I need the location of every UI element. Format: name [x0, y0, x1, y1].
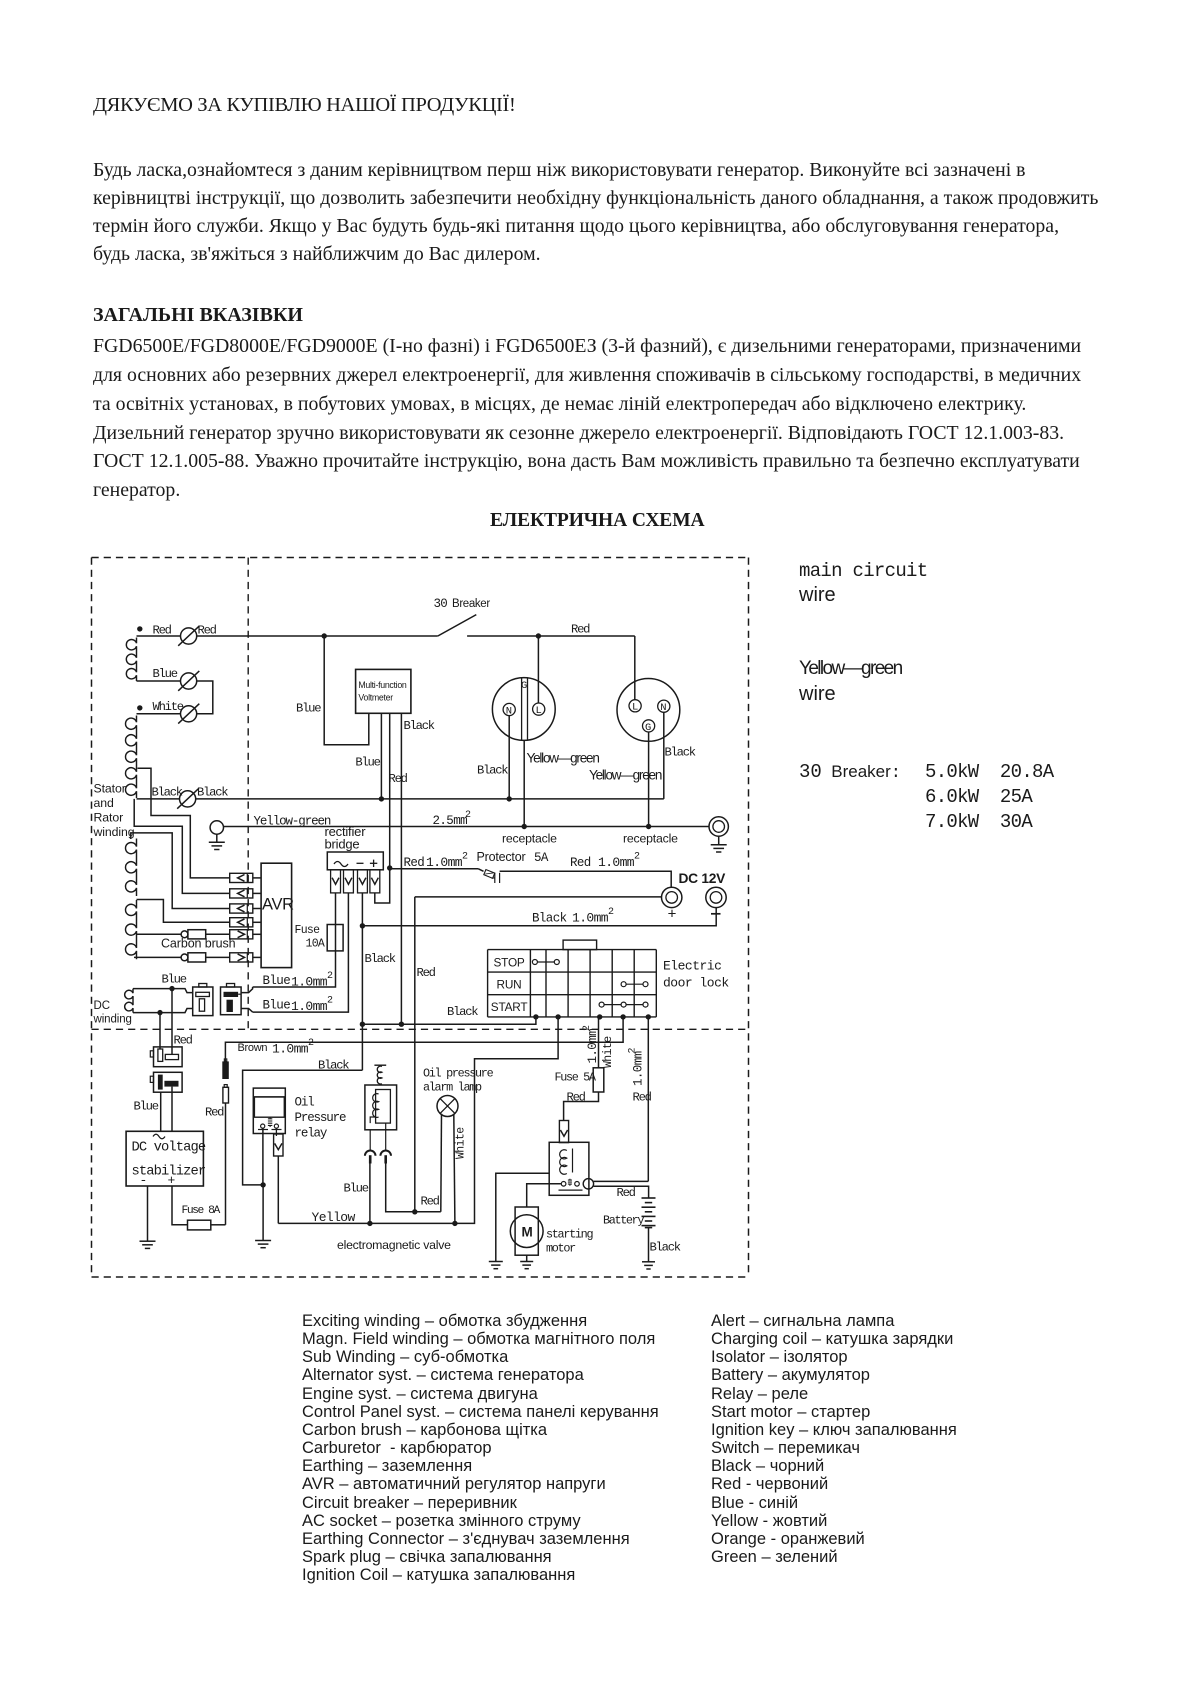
connector: blue wire splice (circle with slash)	[178, 671, 199, 691]
svg-text:2: 2	[608, 907, 614, 918]
frame: inner dashed divider vertical (stator section)	[247, 558, 249, 1030]
node: junction dot lamp line / white riser	[412, 1209, 417, 1214]
connector: AVR input 2	[230, 889, 261, 898]
label minus	[711, 913, 721, 915]
label Carbon brush	[161, 937, 236, 951]
wire: valve lead 2 inside box	[385, 1123, 387, 1150]
wire: fuse 5A to relay coil	[564, 1092, 599, 1121]
wire: motor to ground	[526, 1255, 528, 1261]
label Black (relay feed)	[318, 1059, 349, 1073]
label Battery	[603, 1214, 644, 1228]
svg-text:Red: Red	[205, 1106, 224, 1120]
label plus	[668, 907, 677, 924]
label Fuse 5A	[555, 1071, 597, 1085]
DC voltage stabilizer box	[126, 1131, 206, 1188]
page title	[93, 91, 515, 119]
svg-text:1.0mm: 1.0mm	[426, 855, 463, 870]
node: junction lamp/yellow line	[452, 1221, 457, 1226]
switch contacts STOP row	[532, 960, 559, 965]
wire: black wire from control drop to relay	[243, 1070, 363, 1185]
svg-text:receptacle: receptacle	[502, 832, 557, 846]
wire: stabilizer minus to ground	[147, 1186, 149, 1241]
label Red (right of connector)	[198, 624, 217, 638]
svg-text:White: White	[602, 1036, 615, 1068]
svg-text:2: 2	[628, 1048, 639, 1054]
svg-text:Blue: Blue	[134, 1100, 159, 1114]
label Red (lamp line)	[421, 1195, 440, 1209]
wire: valve lead 1 inside box	[369, 1130, 371, 1151]
svg-text:1.0mm: 1.0mm	[598, 855, 635, 870]
svg-text:Yellow—green: Yellow—green	[589, 768, 662, 783]
svg-text:Blue: Blue	[263, 974, 291, 988]
node: switch terminal dot 4	[620, 1014, 625, 1019]
svg-text:Red: Red	[617, 1186, 636, 1200]
wire: lamp right lead down to yellow	[454, 1114, 455, 1224]
wire: dc winding top lead	[133, 989, 193, 993]
protector 5A (thermal protector)	[478, 869, 500, 883]
spark unit 2 (filled bars)	[150, 1072, 182, 1092]
label 2.5mm2	[433, 810, 472, 828]
svg-text:DC 12V: DC 12V	[679, 871, 727, 886]
svg-text:Protector: Protector	[477, 850, 526, 864]
wire: L1 bottom lead to blue connector	[137, 680, 181, 682]
label Blue (voltmeter wire 2)	[355, 756, 380, 770]
paragraph 2	[93, 332, 1081, 505]
wire: switch terminal 5 to battery	[647, 1017, 649, 1182]
label Yellow-green (receptacle1)	[527, 751, 600, 766]
svg-text:Black: Black	[477, 764, 508, 778]
wire: L4 top lead to AVR row4 (stair)	[137, 900, 230, 923]
wire: yellow-green earth line	[224, 826, 710, 828]
svg-text:Voltmeter: Voltmeter	[358, 692, 393, 702]
legend right column	[711, 1312, 957, 1566]
node: switch terminal dot 2	[555, 1014, 560, 1019]
node: junction receptacle1 G / yellow-green	[522, 824, 527, 829]
label Yellow-green (receptacle2)	[589, 768, 662, 783]
label White (lamp lead, rotated)	[455, 1127, 468, 1159]
label Oil pressure alarm lamp	[423, 1067, 494, 1095]
label Black (switch feed)	[447, 1005, 478, 1019]
svg-text:1.0mm: 1.0mm	[291, 975, 328, 990]
wire: L4 tap to carbon brush 1	[137, 933, 182, 935]
wire: fuse 8A to red riser	[211, 1224, 226, 1226]
spark unit 1 (hollow bars)	[150, 1047, 182, 1067]
svg-text:receptacle: receptacle	[623, 832, 678, 846]
svg-text:Black: Black	[365, 952, 396, 966]
connector: black wire splice (circle with slash)	[177, 789, 198, 809]
terminal: DC 12V minus	[706, 887, 726, 907]
svg-text:electromagnetic valve: electromagnetic valve	[337, 1238, 451, 1252]
wire: white riser from dc12v line	[414, 897, 416, 1212]
breaker 30: open switch arm	[438, 615, 477, 636]
connector: AVR input 1	[230, 873, 261, 882]
relay K1 (starter relay)	[549, 1142, 589, 1195]
wire: bridge -3 down (black control drop)	[361, 893, 363, 1070]
wire: black 1.0mm2 line to minus terminal	[362, 908, 716, 926]
node: junction dot dc top lead	[169, 986, 174, 991]
wire: black neutral line to receptacles	[196, 798, 664, 800]
svg-text:Blue: Blue	[355, 756, 380, 770]
label Red (top of isolators)	[174, 1034, 193, 1048]
svg-text:alarm lamp: alarm lamp	[423, 1081, 482, 1095]
label Black (voltmeter wire 4)	[404, 719, 435, 733]
terminal: relay output circle	[583, 1179, 593, 1189]
svg-text:Stator: Stator	[94, 782, 126, 796]
legend left column	[302, 1312, 659, 1584]
switch contacts RUN row	[621, 982, 648, 987]
valve plug hook 1	[365, 1151, 376, 1164]
wire: isolator to blue 1.0mm2 line 1	[241, 987, 253, 993]
node: junction dot black drop / dc12v black line	[360, 923, 365, 928]
label rectifier bridge	[325, 824, 367, 852]
schema heading	[490, 510, 705, 532]
ignition switch block (electric door lock)	[488, 940, 657, 1017]
label Black (receptacle1 N wire)	[477, 764, 508, 778]
check valve (relay coil input)	[559, 1121, 568, 1143]
svg-text:Fuse 5A: Fuse 5A	[555, 1071, 597, 1085]
carbon brush 1 (circle + holder)	[181, 930, 206, 939]
label Black (control drop)	[365, 952, 396, 966]
rectifier bridge block	[327, 852, 383, 870]
paragraph 1	[93, 156, 1098, 268]
receptacle 2 (AC socket)	[617, 679, 680, 742]
svg-text:Multi-function: Multi-function	[358, 680, 407, 690]
wire: L2 bottom to black connector	[137, 798, 180, 800]
frame: inner dashed divider horizontal (engine section)	[92, 1028, 749, 1030]
label Oil Pressure relay	[295, 1096, 346, 1141]
wire: yellow line	[278, 1017, 558, 1224]
label Black (right of connector)	[197, 786, 228, 800]
ground: battery earth	[642, 1262, 655, 1269]
wire: black line corner up to receptacle 2 N	[663, 712, 665, 799]
wire: dc bottom drop to spark block	[159, 1013, 161, 1049]
node: junction valve/yellow line	[367, 1221, 372, 1226]
wire: relay coil to ground (left)	[496, 1173, 549, 1261]
wire: valve hook1 to yellow line	[369, 1164, 371, 1224]
label 1.0mm2 (battery riser, rotated)	[628, 1048, 646, 1087]
svg-text:Red: Red	[570, 856, 591, 870]
label Blue (valve lead)	[344, 1182, 369, 1196]
svg-text:Fuse: Fuse	[295, 924, 321, 937]
fuse 10A (cartridge)	[327, 925, 343, 951]
connector: red wire splice (circle with slash)	[178, 626, 199, 646]
winding L2 (main winding)	[126, 716, 137, 799]
ground: earthing symbol (stator side)	[209, 821, 225, 850]
wire: red main line after breaker	[467, 635, 635, 637]
svg-text:White: White	[153, 700, 184, 714]
wire: red wire down to fuse 8A line	[225, 1103, 227, 1225]
svg-text:Blue: Blue	[162, 973, 187, 987]
connector: bridge output 2 (~)	[344, 870, 354, 893]
node: junction dot control line / voltmeter wire 4	[399, 1021, 404, 1026]
node: junction dot red line / receptacle L drop	[322, 633, 327, 638]
connector: AVR input 4	[230, 918, 261, 927]
electromagnetic valve body	[365, 1085, 397, 1130]
connector: bridge output 3 (-)	[358, 870, 368, 893]
svg-text:2.5mm: 2.5mm	[433, 814, 468, 828]
ground: motor earth	[520, 1262, 533, 1269]
svg-text:starting: starting	[546, 1228, 593, 1242]
label Protector 5A	[477, 850, 549, 865]
svg-text:White: White	[455, 1127, 468, 1159]
lamp (oil pressure alarm)	[437, 1096, 458, 1117]
label Red (battery wire)	[617, 1186, 636, 1200]
wire: white connector to winding L2	[137, 713, 181, 715]
svg-text:Rator: Rator	[94, 811, 124, 825]
svg-text:STOP: STOP	[494, 956, 525, 970]
voltmeter U1 (multi-function voltmeter box)	[356, 669, 411, 713]
svg-text:-: -	[140, 1173, 148, 1188]
AVR (automatic voltage regulator box)	[261, 863, 294, 967]
label Red (voltmeter wire 4 drop)	[417, 966, 436, 980]
svg-text:Red: Red	[567, 1091, 586, 1105]
label starting motor	[546, 1228, 593, 1256]
svg-text:Black: Black	[318, 1059, 349, 1073]
svg-text:and: and	[94, 796, 114, 810]
label Yellow	[312, 1210, 356, 1225]
svg-text:M: M	[522, 1225, 533, 1240]
wire: bridge ~1 down through fuse to blue line 1	[253, 893, 336, 987]
starting motor M	[510, 1207, 543, 1255]
label Black (left of connector)	[152, 786, 183, 800]
svg-text:L: L	[632, 702, 638, 714]
label Blue	[153, 667, 178, 681]
svg-text:Black: Black	[532, 912, 567, 926]
svg-text:RUN: RUN	[497, 978, 522, 992]
wire: control line to switch terminal 1	[362, 1017, 536, 1024]
label 30 Breaker	[434, 597, 491, 611]
wire: bridge ~2 down to blue line 2	[253, 893, 349, 1012]
wire: relay left contact to ground junction	[262, 1128, 264, 1185]
electromagnetic valve coil top bar	[374, 1064, 386, 1066]
label Black (receptacle2 N wire)	[665, 746, 696, 760]
label Yellow-green (earth line)	[254, 815, 331, 829]
wire: dc winding bottom lead	[133, 1009, 193, 1013]
wire: relay contact to motor	[527, 1184, 562, 1207]
label DC 12V	[679, 871, 727, 886]
node: switch terminal dot 5	[646, 1014, 651, 1019]
svg-text:+: +	[668, 907, 677, 924]
svg-text:Red: Red	[174, 1034, 193, 1048]
label Black (battery ground)	[650, 1241, 681, 1255]
node: switch terminal dot 1	[533, 1014, 538, 1019]
svg-text:AVR: AVR	[262, 896, 294, 914]
svg-text:5A: 5A	[534, 851, 549, 865]
svg-text:relay: relay	[295, 1127, 328, 1141]
svg-text:2: 2	[582, 1025, 593, 1031]
wire: blue connector to white connector (L-shape)	[197, 681, 213, 714]
label Blue 1.0mm2 (line 2)	[263, 996, 334, 1015]
svg-text:DC voltage: DC voltage	[132, 1140, 206, 1156]
svg-text:Black: Black	[447, 1005, 478, 1019]
wire: red line corner down to receptacle 2 L	[634, 636, 636, 700]
ground: relay coil earth	[489, 1262, 503, 1269]
wire: lamp left lead down	[440, 1114, 443, 1212]
wire: valve output down to yellow line	[277, 1156, 279, 1223]
wire: protector to DC12V plus	[500, 871, 672, 887]
svg-text:N: N	[660, 702, 666, 714]
label receptacle 1	[502, 832, 557, 846]
label Stator and Rator winding	[93, 782, 135, 840]
connector: AVR input 3	[230, 904, 261, 913]
wire: L2 tap to AVR row1 (stair)	[138, 768, 230, 878]
svg-text:Breaker: Breaker	[452, 598, 490, 610]
node: junction dot black line / voltmeter wire	[379, 796, 384, 801]
label Blue (stabilizer feed)	[134, 1100, 159, 1114]
svg-text:2: 2	[327, 971, 333, 982]
svg-text:Black: Black	[650, 1241, 681, 1255]
svg-text:2: 2	[465, 810, 471, 821]
winding L5 (DC charging coil)	[125, 989, 133, 1013]
check valve (relay output)	[274, 1128, 283, 1156]
fuse 5A (cartridge)	[593, 1068, 604, 1092]
svg-text:1.0mm: 1.0mm	[572, 911, 609, 926]
svg-text:START: START	[491, 1000, 528, 1014]
svg-text:Black: Black	[404, 719, 435, 733]
wire: bridge +4 jog up to red dc node	[375, 868, 390, 903]
wire: voltmeter wire 2 to black line	[380, 713, 382, 799]
svg-text:Blue: Blue	[263, 999, 291, 1013]
wire: receptacle1 L to red line	[537, 636, 539, 703]
isolator block 1 (hollow contacts)	[193, 984, 213, 1016]
wire: voltmeter wire 3 to dc red node	[389, 713, 391, 868]
receptacle 1 (AC socket)	[492, 678, 555, 741]
svg-text:winding: winding	[93, 825, 135, 839]
label Red (fuse output)	[567, 1091, 586, 1105]
svg-text:Yellow—green: Yellow—green	[527, 751, 600, 766]
wire: voltmeter wire 1 (blue) to red line junction	[324, 636, 369, 745]
label Red (brown branch)	[205, 1106, 224, 1120]
node: junction dot relay/black wire	[260, 1182, 265, 1187]
label electromagnetic valve	[337, 1238, 451, 1252]
label 1.0mm2 (white riser, rotated)	[582, 1025, 600, 1064]
label Electric door lock	[663, 959, 729, 991]
label Red (main line near breaker)	[571, 623, 590, 637]
svg-text:2: 2	[462, 852, 468, 863]
svg-text:2: 2	[308, 1038, 314, 1049]
label Fuse 10A	[295, 924, 325, 951]
ground: stabilizer earth	[140, 1241, 156, 1248]
svg-text:L: L	[536, 705, 542, 717]
svg-text:Fuse 8A: Fuse 8A	[182, 1205, 221, 1217]
label Red 1.0mm2 (to dc12v)	[570, 852, 640, 871]
svg-text:1.0mm: 1.0mm	[272, 1042, 309, 1057]
node: junction dot control line / black drop	[360, 1021, 365, 1026]
svg-text:Pressure: Pressure	[295, 1111, 346, 1125]
node: junction dot dc bottom lead	[157, 1010, 162, 1015]
svg-text:Blue: Blue	[344, 1182, 369, 1196]
svg-text:Black: Black	[197, 786, 228, 800]
wire: dc top drop to spark block	[171, 989, 173, 1055]
node: junction dot red dc node	[387, 865, 392, 870]
wire: brown line from switch terminal 4	[225, 1017, 623, 1062]
svg-text:Oil: Oil	[295, 1096, 315, 1110]
svg-text:Blue: Blue	[153, 667, 178, 681]
connector: white wire splice (circle with slash)	[178, 704, 199, 724]
svg-text:30: 30	[434, 597, 448, 611]
wire: receptacle2 G down to yellow-green line	[648, 732, 650, 827]
label Red (battery riser)	[633, 1091, 652, 1105]
svg-text:G: G	[521, 680, 527, 692]
svg-text:Black: Black	[665, 746, 696, 760]
svg-text:Red: Red	[421, 1195, 440, 1209]
svg-text:Electric: Electric	[663, 959, 721, 974]
wire: receptacle1 G down to yellow-green line	[523, 740, 525, 826]
label receptacle 2	[623, 832, 678, 846]
section heading	[93, 301, 303, 329]
svg-text:Black: Black	[152, 786, 183, 800]
svg-text:Red: Red	[571, 623, 590, 637]
wire: voltmeter wire 4 (down to control line)	[400, 713, 402, 1024]
right side annotations	[799, 560, 927, 582]
oil pressure relay (sensor box)	[253, 1088, 285, 1133]
svg-text:bridge: bridge	[325, 837, 360, 852]
ground: oil relay earth	[255, 1241, 271, 1248]
wire: spark unit to stabilizer lead 1	[160, 1092, 162, 1131]
svg-text:1.0mm: 1.0mm	[291, 999, 328, 1014]
winding L1 (exciting winding coil)	[126, 638, 136, 682]
svg-text:Red: Red	[404, 856, 425, 870]
isolator block 2 (filled contacts)	[221, 984, 242, 1015]
wire: stabilizer plus to fuse 8A	[172, 1186, 188, 1225]
wire: battery to ground	[648, 1228, 650, 1262]
svg-text:DC: DC	[94, 1000, 110, 1012]
node: switch terminal dot 3	[597, 1014, 602, 1019]
wire: red dc wire to protector	[390, 868, 478, 870]
svg-text:motor: motor	[546, 1242, 576, 1256]
label Red (left of connector)	[153, 624, 172, 638]
wire: L3 top lead to AVR row3 (stair)	[131, 833, 230, 909]
wire: switch terminal 3 to fuse 5A	[598, 1017, 600, 1068]
node: junction dot red line / blue voltmeter drop	[536, 633, 541, 638]
svg-text:2: 2	[634, 852, 640, 863]
wire: L4 bottom lead to carbon brush 2	[134, 956, 181, 958]
connector: bridge output 4 (+)	[370, 870, 380, 893]
svg-text:Blue: Blue	[296, 702, 321, 716]
label Red (voltmeter wire 3)	[389, 772, 408, 786]
label DC winding	[93, 1000, 132, 1026]
switch contacts START row	[599, 1002, 648, 1007]
label Blue 1.0mm2 (line 1)	[263, 971, 334, 990]
label Black 1.0mm2 (dc12v minus line)	[532, 907, 614, 926]
wire: white line from plus terminal (to engine section)	[415, 896, 662, 898]
connector: brush output 1	[206, 930, 261, 939]
valve plug hook 2	[380, 1151, 391, 1164]
wire: relay output to battery (lower)	[594, 1186, 649, 1198]
svg-text:Battery: Battery	[603, 1214, 644, 1228]
connector: brush output 2	[206, 953, 261, 962]
wire: receptacle1 N down to black line	[508, 716, 510, 799]
terminal: DC 12V plus	[662, 887, 682, 907]
wire: spark unit to stabilizer lead 2	[171, 1087, 173, 1132]
winding L4 (magnetic field winding)	[126, 900, 137, 959]
svg-text:Red: Red	[417, 966, 436, 980]
charging resistor (filled element)	[222, 1059, 229, 1079]
wire: junction down to earth	[262, 1185, 264, 1241]
wire: relay output to battery riser (upper)	[594, 1180, 649, 1182]
svg-text:1.0mm: 1.0mm	[632, 1051, 646, 1086]
label Blue (voltmeter feed)	[296, 702, 321, 716]
svg-text:Oil pressure: Oil pressure	[423, 1067, 494, 1081]
svg-text:2: 2	[327, 996, 333, 1007]
electromagnetic valve pilot coil	[377, 1066, 382, 1084]
label Blue (dc winding)	[162, 973, 187, 987]
wire: isolator to blue 1.0mm2 line 2	[241, 1009, 253, 1013]
svg-text:door lock: door lock	[663, 976, 729, 991]
svg-text:Red: Red	[389, 772, 408, 786]
wire: L1 top lead to red connector	[137, 635, 181, 637]
carbon brush 2 (circle + holder)	[181, 953, 206, 962]
